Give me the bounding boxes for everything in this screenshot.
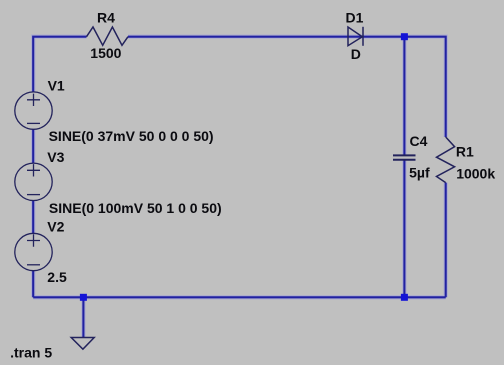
svg-text:1500: 1500 bbox=[90, 45, 121, 61]
wire left vertical top segment and top-left corner bbox=[33, 37, 86, 92]
wire C4 bottom plate to bottom rail bbox=[403, 161, 405, 298]
svg-text:D1: D1 bbox=[346, 10, 364, 26]
wire R1 bottom to bottom rail bbox=[445, 183, 447, 298]
svg-text:D: D bbox=[351, 46, 361, 62]
wire V2 bottom to bottom rail bbox=[32, 271, 34, 297]
wire ground stub bbox=[82, 297, 84, 337]
wire top rail from R4 to right corner down to R1 bbox=[128, 37, 446, 137]
svg-text:.tran 5: .tran 5 bbox=[10, 345, 52, 361]
svg-text:V1: V1 bbox=[48, 78, 65, 94]
wire V3 bottom to V2 top bbox=[32, 201, 34, 234]
svg-text:R1: R1 bbox=[456, 143, 474, 159]
svg-text:2.5: 2.5 bbox=[47, 269, 67, 285]
svg-text:V3: V3 bbox=[47, 149, 64, 165]
capacitor C4 bbox=[393, 155, 416, 159]
resistor R1 bbox=[437, 137, 455, 183]
node junction top (C4 tap) bbox=[401, 33, 408, 40]
svg-text:5µf: 5µf bbox=[409, 165, 430, 181]
resistor R4 bbox=[87, 27, 129, 45]
ground bbox=[71, 338, 94, 350]
svg-text:SINE(0 37mV 50 0 0 0 50): SINE(0 37mV 50 0 0 0 50) bbox=[49, 128, 214, 144]
voltage source V1 bbox=[15, 92, 52, 129]
wire halos bbox=[33, 37, 446, 337]
wire V1 bottom to V3 top bbox=[32, 129, 34, 163]
node junction bottom-left (ground tap) bbox=[80, 294, 87, 301]
diode D1 bbox=[348, 27, 363, 46]
svg-text:C4: C4 bbox=[410, 133, 428, 149]
wire bottom rail bbox=[33, 296, 446, 298]
wire junction to C4 top plate bbox=[403, 37, 405, 155]
svg-text:V2: V2 bbox=[47, 219, 64, 235]
voltage source V3 bbox=[15, 163, 52, 200]
svg-text:SINE(0 100mV 50 1 0 0 50): SINE(0 100mV 50 1 0 0 50) bbox=[49, 200, 222, 216]
voltage source V2 bbox=[15, 233, 52, 270]
svg-text:1000k: 1000k bbox=[456, 165, 495, 181]
svg-text:R4: R4 bbox=[97, 9, 115, 25]
node junction bottom (C4 tap) bbox=[401, 294, 408, 301]
